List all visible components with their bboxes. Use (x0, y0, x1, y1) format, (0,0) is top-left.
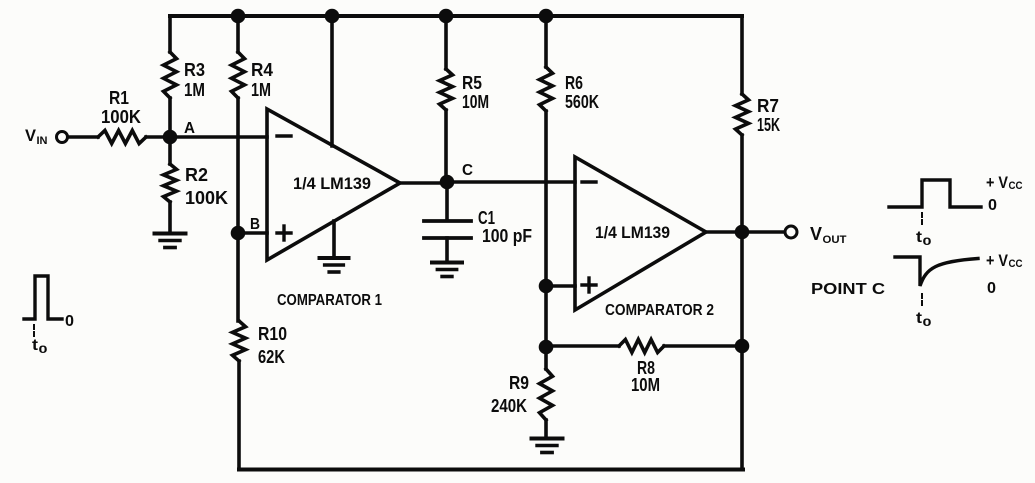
svg-text:R1: R1 (109, 88, 129, 108)
svg-text:V: V (810, 224, 822, 244)
svg-text:0: 0 (923, 236, 932, 248)
svg-text:C1: C1 (478, 208, 495, 228)
svg-text:IN: IN (37, 135, 48, 147)
svg-text:100K: 100K (101, 107, 141, 127)
svg-text:0: 0 (65, 313, 74, 330)
svg-text:100K: 100K (185, 188, 228, 208)
svg-text:COMPARATOR 2: COMPARATOR 2 (605, 302, 714, 319)
svg-text:100 pF: 100 pF (482, 226, 532, 246)
svg-text:A: A (184, 120, 195, 137)
svg-text:0: 0 (923, 317, 932, 329)
svg-text:1/4 LM139: 1/4 LM139 (595, 223, 670, 242)
svg-text:1M: 1M (184, 80, 205, 100)
svg-text:1M: 1M (251, 80, 271, 100)
svg-text:560K: 560K (565, 92, 599, 112)
svg-text:C: C (462, 162, 473, 179)
svg-text:10M: 10M (462, 92, 489, 112)
svg-text:+ V: + V (986, 173, 1009, 192)
svg-text:COMPARATOR 1: COMPARATOR 1 (277, 292, 382, 309)
svg-text:62K: 62K (258, 347, 285, 367)
svg-text:R5: R5 (462, 73, 482, 93)
svg-text:R10: R10 (258, 324, 287, 344)
svg-text:R6: R6 (565, 73, 583, 93)
svg-text:15K: 15K (757, 115, 780, 135)
svg-text:R3: R3 (184, 60, 205, 80)
svg-text:R4: R4 (251, 60, 273, 80)
svg-text:10M: 10M (631, 375, 660, 395)
svg-text:0: 0 (988, 197, 997, 214)
svg-text:POINT C: POINT C (811, 281, 886, 298)
svg-text:OUT: OUT (823, 234, 847, 246)
svg-text:0: 0 (39, 344, 48, 356)
svg-text:R2: R2 (185, 165, 208, 185)
svg-text:0: 0 (987, 280, 996, 297)
svg-text:V: V (25, 126, 37, 145)
svg-text:R7: R7 (757, 96, 779, 116)
svg-text:+ V: + V (986, 251, 1009, 270)
svg-text:R9: R9 (509, 373, 529, 393)
svg-text:CC: CC (1009, 258, 1023, 270)
svg-text:B: B (250, 216, 260, 233)
svg-text:240K: 240K (491, 396, 527, 416)
svg-text:1/4 LM139: 1/4 LM139 (293, 174, 371, 193)
svg-text:CC: CC (1009, 180, 1023, 192)
